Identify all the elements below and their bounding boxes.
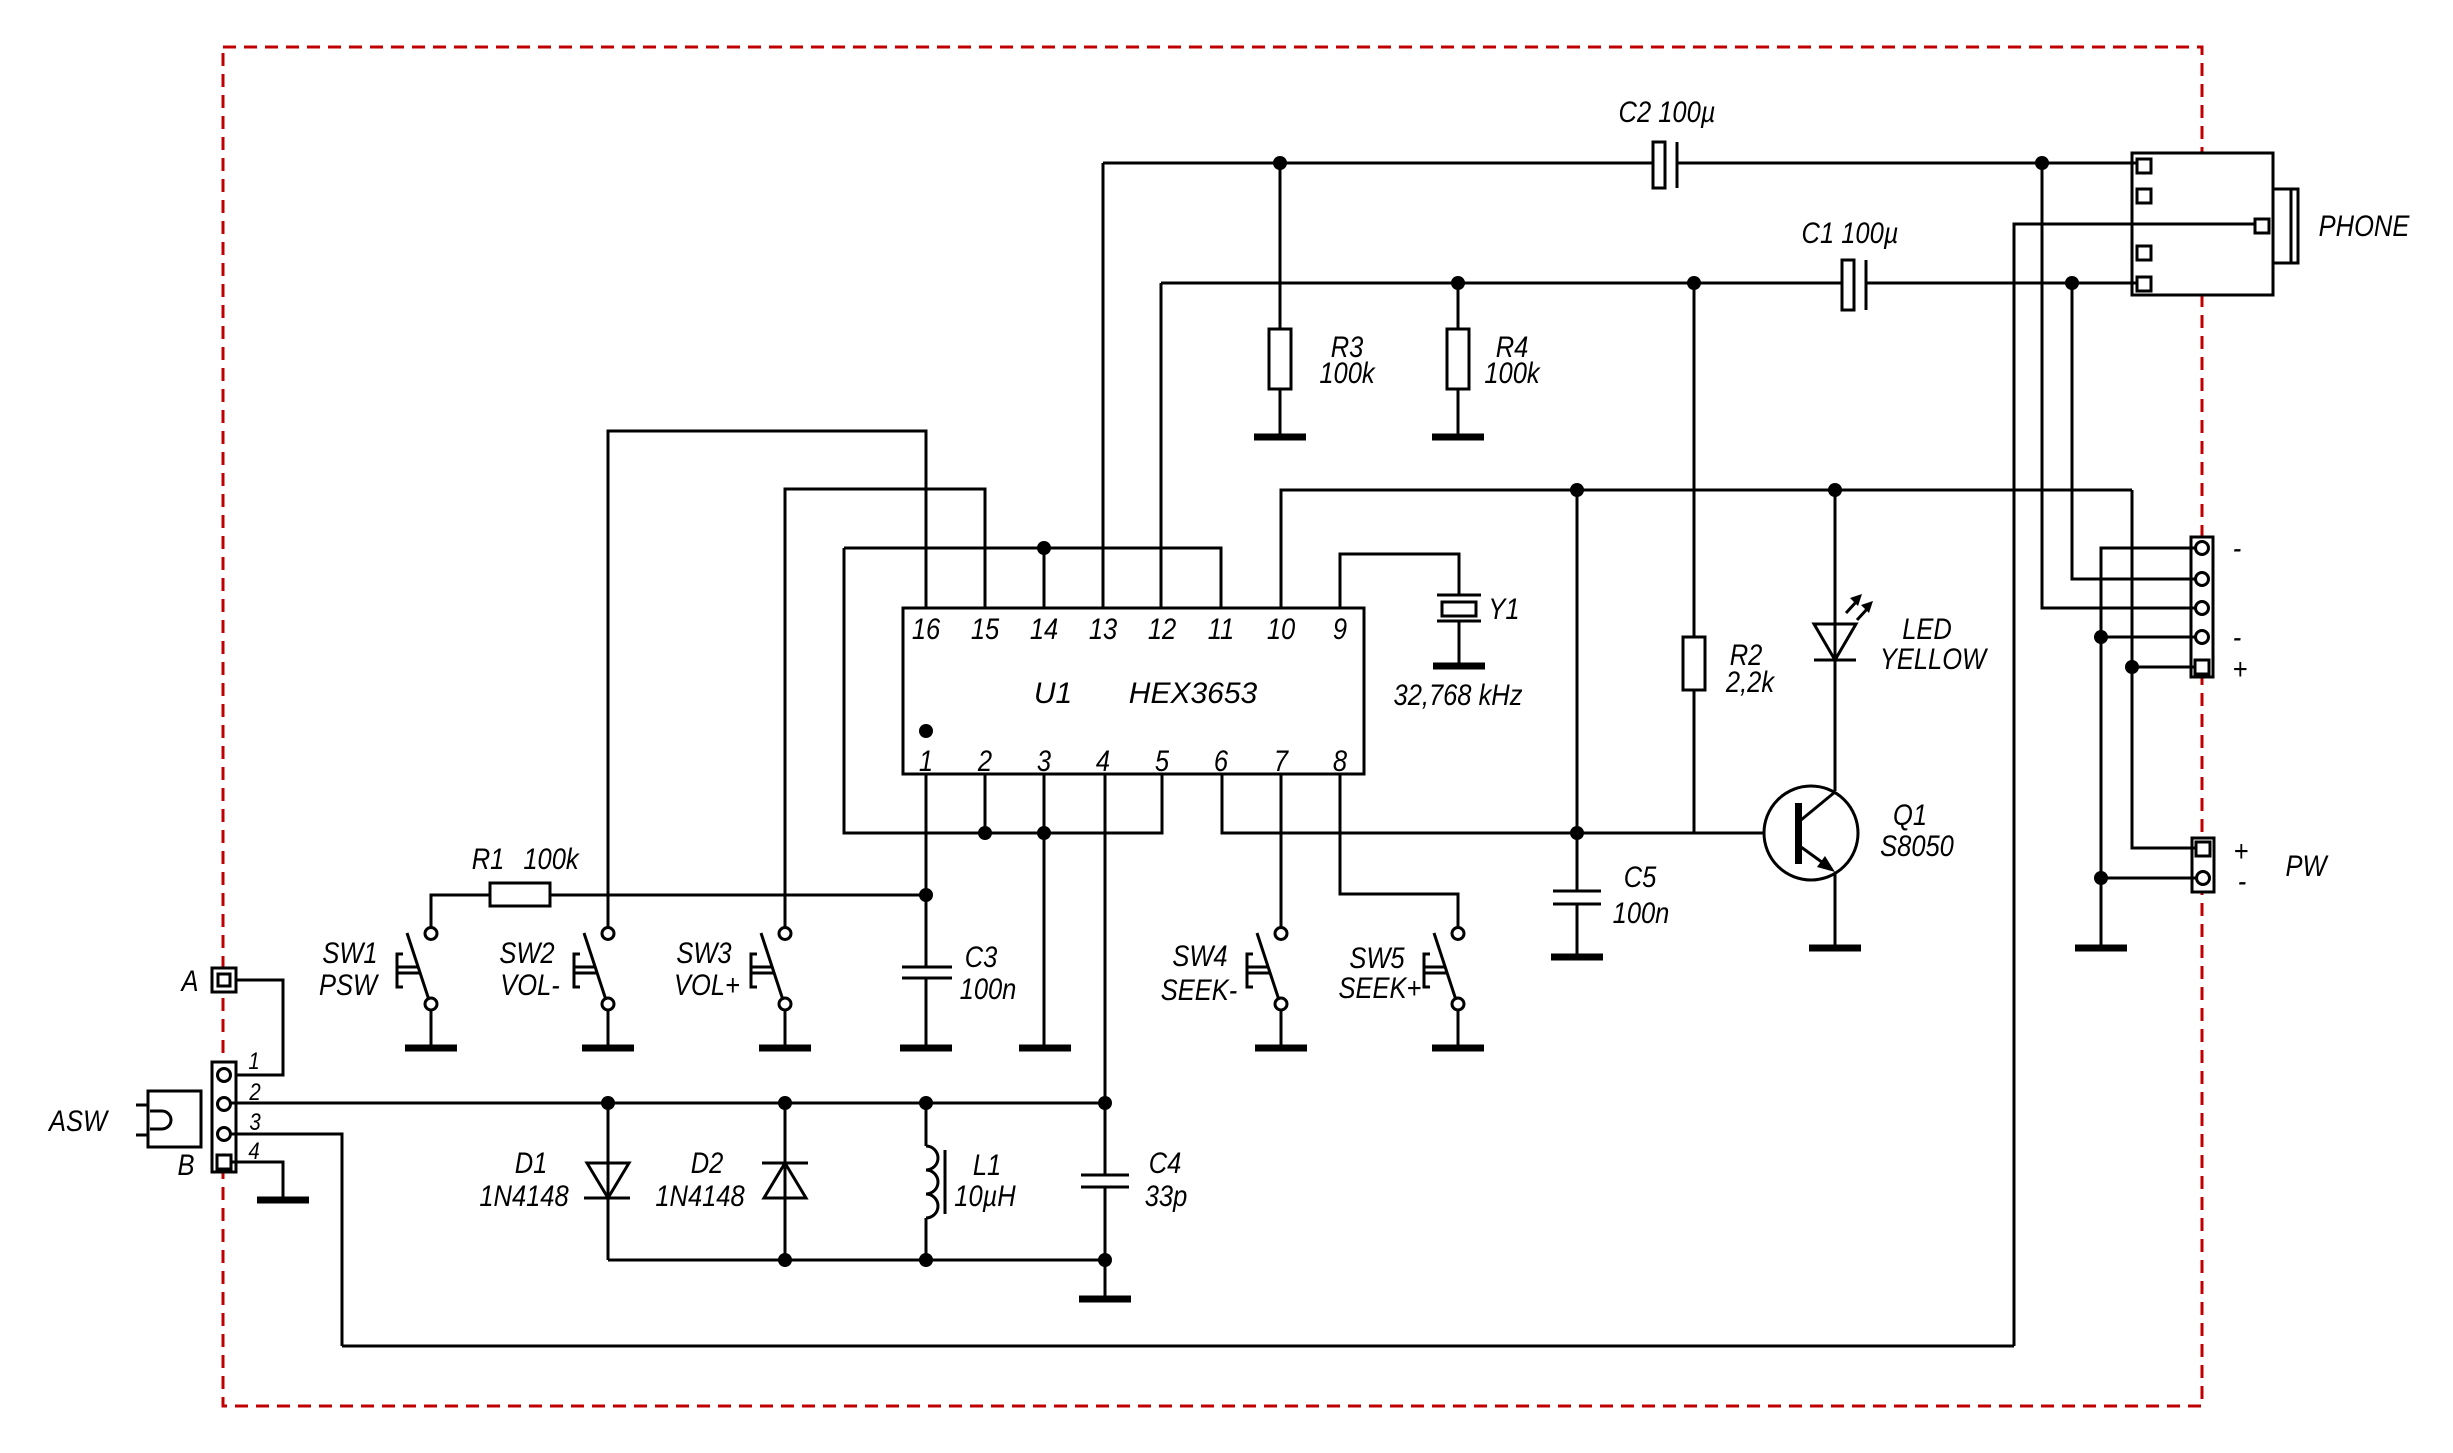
svg-text:VOL-: VOL- xyxy=(500,968,559,1001)
ground C5 xyxy=(1551,954,1603,961)
svg-text:100k: 100k xyxy=(1319,356,1376,389)
node net2 R2 junction xyxy=(1687,276,1701,290)
svg-text:C2 100µ: C2 100µ xyxy=(1619,95,1716,128)
svg-text:R1: R1 xyxy=(472,842,505,875)
svg-text:1: 1 xyxy=(248,1047,259,1074)
wire net1 to CN1 pin3 xyxy=(2042,163,2197,608)
node C5 base junction xyxy=(1570,826,1584,840)
svg-text:SW2: SW2 xyxy=(499,936,555,969)
svg-text:5: 5 xyxy=(1155,744,1170,777)
svg-text:-: - xyxy=(2233,620,2242,653)
wire net1 top rail left of C2 xyxy=(1103,162,1653,165)
ground terminal B xyxy=(257,1197,309,1204)
IC U1 HEX3653 xyxy=(903,608,1364,777)
svg-text:14: 14 xyxy=(1030,612,1058,645)
ground SW1 xyxy=(405,1045,457,1052)
wire pin3 to ground xyxy=(1043,774,1046,1045)
node R1 pin1 junction xyxy=(919,888,933,902)
svg-text:LED: LED xyxy=(1902,612,1952,645)
svg-text:SW1: SW1 xyxy=(322,936,377,969)
switch SW5 SEEK+ xyxy=(1339,928,1464,1046)
connector PW pins xyxy=(2196,842,2210,885)
svg-text:11: 11 xyxy=(1208,612,1234,645)
wire gnd line pins 14 11 xyxy=(844,548,1221,608)
diode D2 1N4148 xyxy=(655,1146,808,1212)
wire C4 bottom to ground xyxy=(1104,1187,1107,1296)
diode D1 1N4148 xyxy=(479,1146,630,1212)
svg-text:2,2k: 2,2k xyxy=(1725,665,1776,698)
switch SW4 SEEK- xyxy=(1161,928,1287,1046)
svg-text:4: 4 xyxy=(248,1137,259,1164)
wire VCC rail pin10 xyxy=(1281,490,2132,608)
wire pin4 B to ground xyxy=(231,1162,283,1197)
node pin2 junction xyxy=(978,826,992,840)
LED yellow xyxy=(1814,594,1989,675)
node net2 CN1 junction xyxy=(2065,276,2079,290)
svg-text:SW5: SW5 xyxy=(1349,941,1405,974)
wire D2 branch xyxy=(784,1103,787,1260)
svg-text:SEEK-: SEEK- xyxy=(1161,973,1237,1006)
connector PHONE body xyxy=(2132,153,2298,295)
wire phone sleeve drop xyxy=(2014,224,2255,1346)
switch SW1 PSW xyxy=(319,928,437,1046)
ground pin3 xyxy=(1019,1045,1071,1052)
wire net2 rail left of C1 xyxy=(1161,282,1842,285)
svg-text:PSW: PSW xyxy=(319,968,380,1001)
node CN1 pin4 junction xyxy=(2094,630,2108,644)
svg-text:16: 16 xyxy=(912,612,941,645)
connector PW body xyxy=(2192,838,2214,892)
ground PW minus xyxy=(2075,945,2127,952)
svg-text:PW: PW xyxy=(2285,849,2329,882)
ground R4 xyxy=(1432,434,1484,441)
wire lower rail D1 D2 L1 C4 xyxy=(608,1259,1105,1262)
node VCC C5 junction xyxy=(1570,483,1584,497)
wire pin1 to C3 xyxy=(925,774,928,967)
svg-text:1N4148: 1N4148 xyxy=(479,1179,569,1212)
node D2 net junction xyxy=(778,1096,792,1110)
svg-text:U1: U1 xyxy=(1034,677,1072,710)
svg-text:Q1: Q1 xyxy=(1893,798,1927,831)
connector ASW pin header xyxy=(212,1062,236,1172)
svg-text:L1: L1 xyxy=(973,1148,1001,1181)
terminal A xyxy=(212,968,236,992)
svg-text:+: + xyxy=(2233,652,2248,685)
wire pin6 to Q1 base xyxy=(1222,774,1795,833)
svg-text:1N4148: 1N4148 xyxy=(655,1179,745,1212)
wire LED branch xyxy=(1834,490,1837,660)
wire pin15 to SW3 xyxy=(785,489,985,927)
svg-text:10: 10 xyxy=(1267,612,1296,645)
wire bottom return xyxy=(342,1345,2014,1348)
svg-text:S8050: S8050 xyxy=(1880,829,1954,862)
wire L1 top xyxy=(925,1103,928,1146)
svg-text:C1 100µ: C1 100µ xyxy=(1802,216,1899,249)
wire Y1 to ground xyxy=(1458,621,1461,663)
svg-text:ASW: ASW xyxy=(47,1104,109,1137)
resistor R4 xyxy=(1447,329,1542,389)
svg-text:+: + xyxy=(2234,834,2249,867)
svg-text:3: 3 xyxy=(1037,744,1052,777)
wire R3 top xyxy=(1279,163,1282,329)
wire D1 branch xyxy=(607,1103,610,1260)
ground SW3 xyxy=(759,1045,811,1052)
switch SW3 VOL+ xyxy=(674,928,791,1046)
wire R4 to ground xyxy=(1457,389,1460,434)
wire CN1 pin5 xyxy=(2132,666,2197,669)
wire pin16 to SW2 xyxy=(608,431,926,927)
wire R2 bottom to base line xyxy=(1693,690,1696,833)
connector CN1 body xyxy=(2191,537,2213,677)
wire C4 top xyxy=(1104,1103,1107,1175)
wire R3 to ground xyxy=(1279,389,1282,434)
resistor R2 xyxy=(1683,637,1776,698)
wire R1 right xyxy=(550,894,926,897)
wire L1 bottom xyxy=(925,1218,928,1260)
transistor Q1 S8050 xyxy=(1764,786,1954,880)
node D1 net junction xyxy=(601,1096,615,1110)
node net2 R4 junction xyxy=(1451,276,1465,290)
wire net2 row from ASW pin2 xyxy=(229,1102,1105,1105)
node C4 net junction xyxy=(1098,1096,1112,1110)
ground SW4 xyxy=(1255,1045,1307,1052)
crystal Y1 xyxy=(1394,592,1523,711)
svg-text:2: 2 xyxy=(248,1078,261,1105)
svg-text:-: - xyxy=(2233,531,2242,564)
wire terminal A to pin1 xyxy=(236,980,283,1075)
svg-text:D2: D2 xyxy=(691,1146,724,1179)
svg-text:SW3: SW3 xyxy=(676,936,732,969)
wire pin2 stub xyxy=(984,774,987,833)
wire pin14 stub xyxy=(1043,548,1046,608)
switch ASW body xyxy=(136,1091,201,1147)
inductor L1 xyxy=(926,1146,1017,1218)
resistor R3 xyxy=(1269,329,1377,389)
wire Q1 emitter to ground xyxy=(1834,874,1837,945)
svg-text:100n: 100n xyxy=(1613,896,1670,929)
svg-text:6: 6 xyxy=(1214,744,1229,777)
ground R3 xyxy=(1254,434,1306,441)
svg-text:PHONE: PHONE xyxy=(2319,209,2410,242)
svg-text:C4: C4 xyxy=(1149,1146,1182,1179)
wire C5 to ground xyxy=(1576,904,1579,954)
svg-text:4: 4 xyxy=(1096,744,1110,777)
wire pin7 to SW4 xyxy=(1280,774,1283,927)
wire pin9 to Y1 xyxy=(1340,554,1459,608)
svg-text:C5: C5 xyxy=(1624,860,1657,893)
capacitor C1 xyxy=(1802,216,1899,310)
wire net2 to CN1 pin2 xyxy=(2072,283,2197,579)
svg-text:B: B xyxy=(177,1148,194,1181)
capacitor C5 xyxy=(1553,860,1669,929)
svg-text:3: 3 xyxy=(249,1108,261,1135)
svg-text:7: 7 xyxy=(1274,744,1290,777)
node pin3 junction xyxy=(1037,826,1051,840)
svg-text:13: 13 xyxy=(1089,612,1118,645)
wire ASW pin3 to bottom return xyxy=(229,1134,342,1346)
wire CN1 pin4 xyxy=(2101,636,2197,639)
node L1 lower junction xyxy=(919,1253,933,1267)
svg-text:Y1: Y1 xyxy=(1488,592,1519,625)
ground Y1 xyxy=(1433,663,1485,670)
svg-text:SW4: SW4 xyxy=(1172,939,1227,972)
wire net1 pin13 riser xyxy=(1102,163,1105,608)
wire gnd line pins 2 3 5 xyxy=(844,548,1162,833)
svg-text:-: - xyxy=(2238,864,2247,897)
wire R4 top xyxy=(1457,283,1460,329)
svg-text:9: 9 xyxy=(1333,612,1347,645)
connector ASW header pins xyxy=(217,1069,231,1170)
wire VCC to CN1 pin5 and PW plus xyxy=(2132,490,2199,848)
node VCC LED junction xyxy=(1828,483,1842,497)
svg-text:10µH: 10µH xyxy=(954,1179,1016,1212)
svg-text:100n: 100n xyxy=(960,972,1017,1005)
svg-text:VOL+: VOL+ xyxy=(674,968,740,1001)
node net1 CN1 junction xyxy=(2035,156,2049,170)
ground SW5 xyxy=(1432,1045,1484,1052)
svg-text:12: 12 xyxy=(1148,612,1177,645)
capacitor C4 xyxy=(1081,1146,1187,1212)
wire pin4 riser to net D xyxy=(1104,774,1107,1103)
node pin14 junction xyxy=(1037,541,1051,555)
svg-text:1: 1 xyxy=(919,744,933,777)
node C4 lower junction xyxy=(1098,1253,1112,1267)
svg-text:A: A xyxy=(180,964,199,997)
svg-text:C3: C3 xyxy=(965,940,998,973)
capacitor C2 xyxy=(1619,95,1716,188)
ground SW2 xyxy=(582,1045,634,1052)
svg-text:D1: D1 xyxy=(515,1146,548,1179)
node PW minus junction xyxy=(2094,871,2108,885)
switch SW2 VOL- xyxy=(499,928,614,1046)
node net1 R3 junction xyxy=(1273,156,1287,170)
wire C5 top riser xyxy=(1576,490,1579,891)
wire PW minus xyxy=(2101,877,2199,880)
svg-text:SEEK+: SEEK+ xyxy=(1339,971,1422,1004)
wire net2 pin12 riser xyxy=(1160,283,1163,608)
svg-text:YELLOW: YELLOW xyxy=(1880,642,1989,675)
svg-text:2: 2 xyxy=(977,744,993,777)
wire LED cathode to Q1 collector xyxy=(1834,660,1837,791)
connector CN1 pins xyxy=(2195,542,2209,675)
capacitor C3 xyxy=(902,940,1016,1005)
wire C3 to ground xyxy=(925,978,928,1045)
svg-text:100k: 100k xyxy=(523,842,580,875)
svg-text:100k: 100k xyxy=(1484,356,1541,389)
svg-text:HEX3653: HEX3653 xyxy=(1129,677,1258,710)
node D2 lower junction xyxy=(778,1253,792,1267)
wire pin8 to SW5 xyxy=(1340,774,1458,927)
wire net1 top rail right of C2 xyxy=(1677,162,2141,165)
connector PHONE pins xyxy=(2137,159,2269,291)
node CN1 pin5 junction xyxy=(2125,660,2139,674)
ground C3 xyxy=(900,1045,952,1052)
wire R1 left to SW1 xyxy=(431,895,490,927)
svg-text:32,768 kHz: 32,768 kHz xyxy=(1394,678,1523,711)
wire net2 rail right of C1 xyxy=(1866,282,2141,285)
svg-text:15: 15 xyxy=(971,612,1000,645)
node L1 net junction xyxy=(919,1096,933,1110)
wire R2 top xyxy=(1693,283,1696,637)
resistor R1 xyxy=(472,842,581,906)
ground C4 xyxy=(1079,1296,1131,1303)
wire CN1 pin1 gnd chain xyxy=(2101,548,2197,945)
svg-text:8: 8 xyxy=(1333,744,1348,777)
ground Q1 xyxy=(1809,945,1861,952)
svg-text:33p: 33p xyxy=(1145,1179,1188,1212)
